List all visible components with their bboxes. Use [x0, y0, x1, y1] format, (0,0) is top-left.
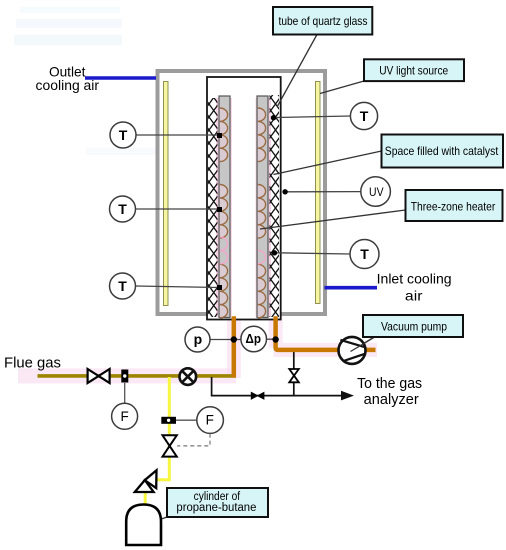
pipe: vacuum line tap to analyzer — [293, 352, 295, 396]
svg-text:analyzer: analyzer — [364, 392, 419, 408]
node: T2 tap — [217, 207, 222, 212]
valve: flue gas inlet (bowtie) — [88, 369, 110, 383]
label pointer: cylinder — [153, 517, 167, 522]
svg-text:Δp: Δp — [246, 332, 262, 346]
heater column left — [219, 96, 230, 318]
node: junction dp — [272, 336, 278, 342]
pipe: outlet cooling air (blue) — [85, 76, 156, 80]
label box: cylinder of propane-butane — [167, 488, 268, 517]
pink lining stripes — [216, 98, 271, 317]
catalyst bed left (hatched) — [208, 98, 218, 317]
svg-text:air: air — [405, 287, 423, 303]
valve: needle valve on vacuum tap — [289, 369, 299, 382]
heater coils left (three zones) — [220, 108, 228, 318]
label pointer: tube of quartz glass — [277, 35, 317, 108]
sensor line T top right — [276, 116, 350, 118]
flow meter FM1 — [121, 370, 128, 383]
pipe: reactor outlet to pump glow — [274, 316, 378, 350]
svg-text:T: T — [360, 108, 369, 124]
node: junction p — [231, 336, 237, 342]
sensor line T1 — [136, 134, 218, 136]
sensor dp — [241, 326, 267, 352]
label box: space filled with catalyst — [382, 135, 504, 168]
svg-text:propane-butane: propane-butane — [176, 502, 256, 514]
label pointer: three-zone heater — [260, 210, 406, 229]
sensor line UV — [287, 191, 361, 193]
label box: vacuum pump — [363, 315, 463, 337]
svg-text:Vacuum pump: Vacuum pump — [381, 320, 447, 334]
svg-text:T: T — [118, 201, 127, 217]
svg-text:Inlet cooling: Inlet cooling — [377, 271, 452, 287]
arrowhead: to the gas analyzer — [341, 391, 354, 401]
text: inlet cooling air — [377, 271, 452, 304]
node: T top right tap — [271, 115, 276, 120]
pipe: analyzer tap line — [212, 377, 341, 396]
blower (crossed circle) — [180, 368, 197, 385]
label box: three-zone heater — [406, 190, 503, 221]
heater column right — [257, 96, 268, 318]
heater coils right (three zones) — [258, 108, 266, 318]
pressure regulator (two triangles) — [135, 470, 157, 492]
pipe: inlet cooling air (blue) — [325, 286, 378, 290]
ghost artifact bands top-left — [14, 7, 158, 155]
svg-text:Space filled with catalyst: Space filled with catalyst — [385, 144, 499, 158]
sensor line T3 — [136, 286, 220, 288]
svg-text:T: T — [119, 127, 128, 143]
sensor T1 — [110, 122, 136, 148]
label box: tube of quartz glass — [273, 7, 372, 35]
valve: needle valve on propane line — [163, 435, 177, 456]
pipe: reactor outlet to vacuum pump (orange) — [276, 316, 376, 350]
sensor F2 — [176, 407, 223, 434]
node: T bottom right tap — [272, 250, 277, 255]
node: UV tap — [282, 189, 287, 194]
label box: UV light source — [364, 59, 464, 81]
UV lamp left (yellow tube) — [164, 82, 169, 306]
dashed control line F2 to needle valve — [177, 434, 210, 446]
valve: analyzer line (black bowtie) — [251, 392, 264, 399]
pipe: propane feed to cylinder (yellow) — [144, 491, 147, 506]
pipe: reactor inlet riser glow — [227, 316, 241, 378]
sensor T bottom right — [350, 240, 379, 269]
sensor T top right — [350, 102, 377, 129]
svg-text:tube of quartz glass: tube of quartz glass — [279, 14, 368, 28]
flow meter FM2 — [161, 417, 176, 424]
svg-text:T: T — [360, 246, 369, 262]
sensor F1 — [112, 383, 138, 429]
text: to the gas analyzer — [357, 376, 422, 408]
sensor p — [185, 327, 210, 352]
sensor line p to dp — [210, 339, 241, 341]
svg-text:T: T — [118, 278, 127, 294]
svg-text:Three-zone heater: Three-zone heater — [411, 200, 496, 214]
pipe: flue gas glow — [18, 368, 236, 383]
sensor line T2 — [136, 208, 218, 210]
node: T3 tap — [217, 285, 222, 290]
sensor line dp to outlet pipe — [266, 338, 275, 340]
svg-text:F: F — [206, 413, 214, 428]
sensor UV — [361, 177, 391, 207]
gas cylinder — [126, 505, 161, 546]
sensor T2 — [110, 196, 136, 222]
reactor housing (gray) — [158, 71, 326, 314]
label pointer: UV light source — [320, 81, 364, 94]
text: outlet cooling air — [36, 64, 100, 94]
node: T1 tap — [217, 133, 222, 138]
sensor line T bottom right — [277, 253, 350, 254]
pipe: flue gas line — [38, 374, 237, 378]
sensor T3 — [110, 273, 136, 299]
label pointer: space filled with catalyst — [274, 151, 382, 175]
svg-text:cooling air: cooling air — [36, 77, 100, 93]
svg-text:p: p — [194, 331, 203, 347]
svg-text:To the gas: To the gas — [357, 376, 422, 392]
pipe: propane feed line (yellow) — [157, 377, 170, 480]
svg-text:Flue gas: Flue gas — [4, 355, 61, 372]
svg-text:UV light source: UV light source — [379, 64, 448, 78]
label pointer: vacuum pump — [351, 337, 374, 351]
UV lamp right (yellow tube) — [316, 82, 321, 304]
pipe: reactor inlet riser (orange) — [232, 316, 237, 377]
svg-text:UV: UV — [369, 187, 384, 199]
catalyst bed right (hatched) — [270, 95, 280, 317]
svg-text:F: F — [120, 409, 128, 424]
pink artifact arcs — [220, 237, 266, 264]
vacuum pump — [339, 337, 375, 364]
tube of quartz glass (vessel) — [207, 77, 281, 320]
